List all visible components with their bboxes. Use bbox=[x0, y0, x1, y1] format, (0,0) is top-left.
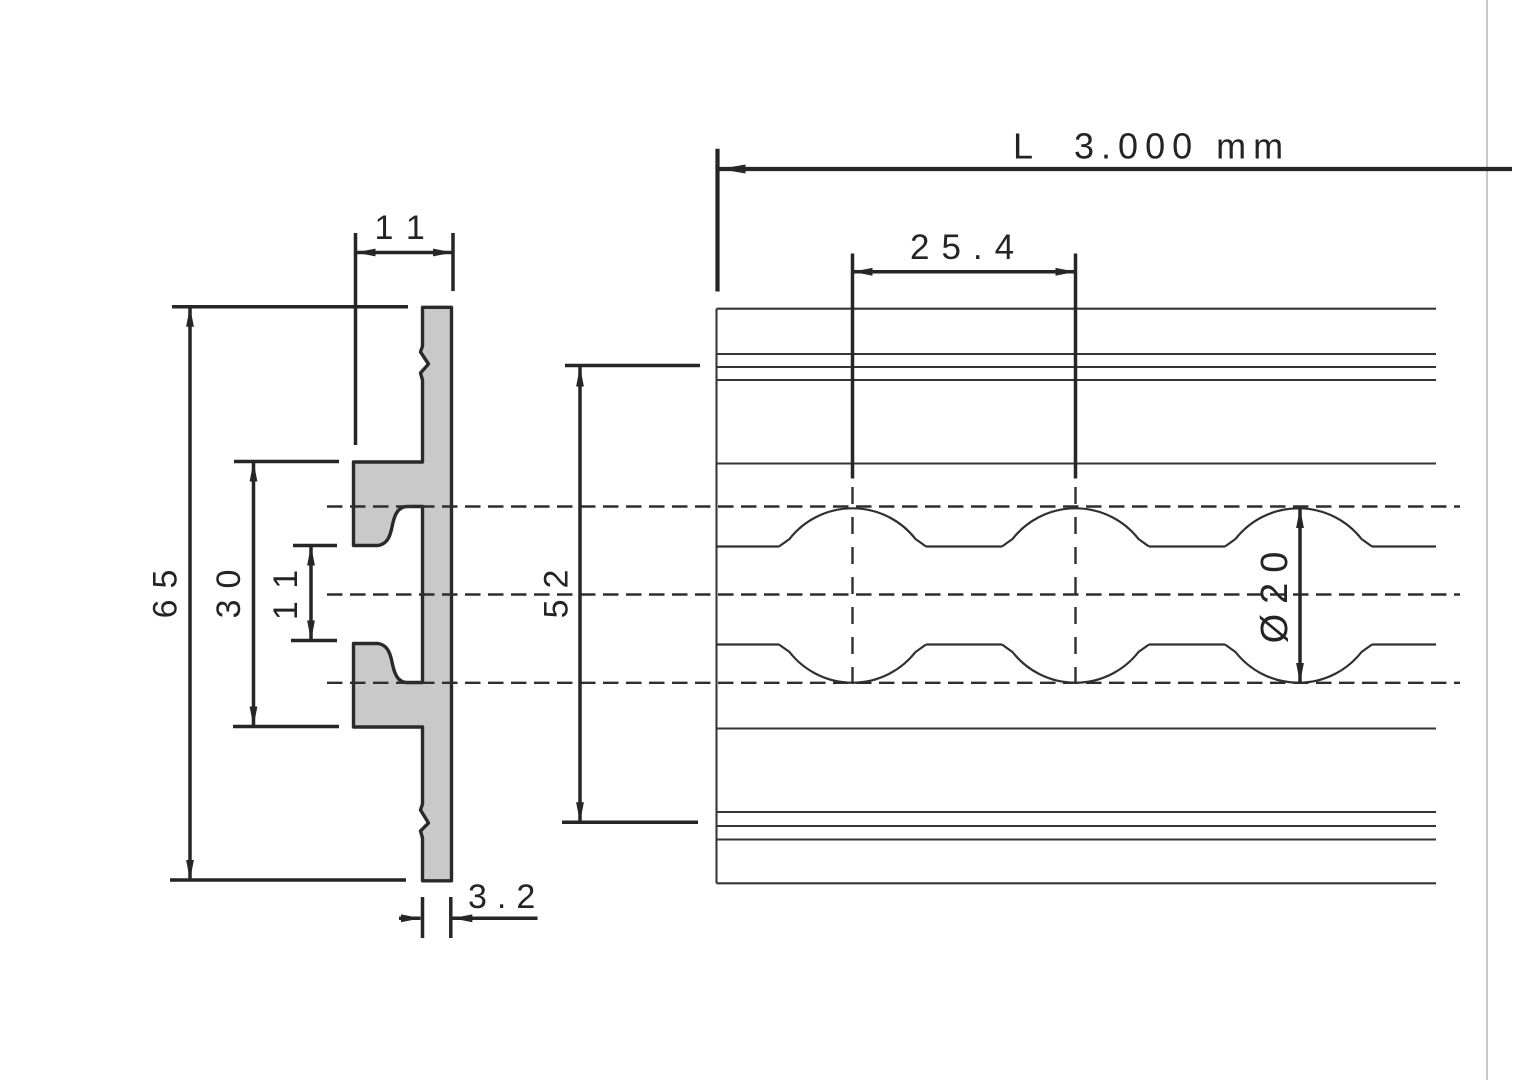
svg-text:52: 52 bbox=[537, 559, 575, 619]
svg-text:11: 11 bbox=[375, 209, 440, 247]
svg-text:25.4: 25.4 bbox=[910, 228, 1026, 267]
svg-text:11: 11 bbox=[267, 555, 305, 620]
svg-text:65: 65 bbox=[146, 559, 184, 619]
svg-text:3.2: 3.2 bbox=[468, 878, 545, 916]
svg-text:L 3.000 mm: L 3.000 mm bbox=[1013, 126, 1290, 167]
svg-text:30: 30 bbox=[210, 559, 248, 619]
svg-text:Ø20: Ø20 bbox=[1254, 542, 1296, 644]
